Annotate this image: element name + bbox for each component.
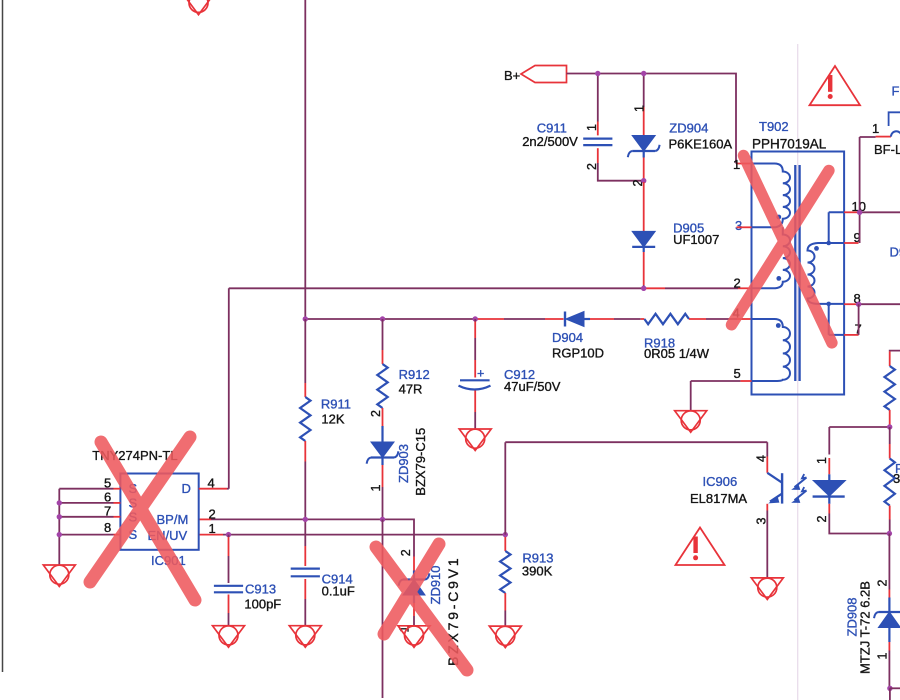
svg-text:BP/M: BP/M — [157, 512, 189, 527]
svg-text:39: 39 — [893, 471, 900, 486]
svg-text:EL817MA: EL817MA — [690, 491, 747, 506]
ground C914 — [289, 626, 321, 648]
wire C911 bottom elbow — [597, 148, 599, 163]
diode D904 — [564, 312, 566, 327]
wire C913 bottom — [228, 595, 230, 614]
wire C911 top — [597, 74, 599, 122]
wire R912 top — [382, 319, 384, 350]
wire right resistor feed — [890, 350, 900, 353]
svg-text:P6KE160A: P6KE160A — [669, 137, 733, 152]
wire top vertical feed — [304, 0, 306, 319]
wire IC906 collector — [766, 442, 768, 456]
ground T902 pin5 — [675, 411, 707, 433]
wire bias rail — [305, 318, 477, 320]
node T902 internal 9/10 — [826, 241, 831, 246]
svg-text:B+: B+ — [504, 68, 520, 83]
resistor R913 — [500, 551, 510, 593]
svg-text:3: 3 — [735, 218, 742, 233]
svg-text:2: 2 — [815, 516, 829, 523]
T902 winding dot C — [776, 323, 781, 328]
svg-text:2n2/500V: 2n2/500V — [522, 134, 578, 149]
node Ra/Rb/LED link — [887, 424, 892, 429]
svg-text:5: 5 — [734, 366, 741, 381]
wire transformer pin1 stub — [736, 163, 752, 165]
svg-text:ZD904: ZD904 — [669, 120, 708, 135]
node EN/UV / C913 — [226, 532, 231, 537]
wire ZD908 bottom — [888, 628, 890, 643]
svg-text:+: + — [477, 367, 484, 381]
svg-text:2: 2 — [399, 549, 413, 556]
svg-text:1: 1 — [633, 105, 647, 112]
svg-text:R912: R912 — [399, 367, 430, 382]
svg-text:D904: D904 — [552, 330, 583, 345]
wire EN/UV rail — [223, 534, 505, 536]
wire ZD903 bottom — [381, 458, 383, 466]
svg-text:1: 1 — [209, 521, 216, 536]
diode IC906 LED — [813, 481, 845, 497]
svg-text:1: 1 — [872, 121, 879, 136]
svg-text:3: 3 — [754, 518, 768, 525]
wire ZD904 top — [643, 74, 645, 108]
svg-text:2: 2 — [876, 580, 890, 587]
node pin10 junction — [857, 210, 862, 215]
wire B+ rail to transformer pin 1 — [567, 74, 737, 164]
resistor Rb (right edge) — [885, 459, 895, 506]
T902 secondary links — [829, 212, 844, 335]
svg-text:2: 2 — [209, 506, 216, 521]
T902 secondary winding — [808, 212, 829, 304]
wire IC901 BP/M stub — [199, 518, 211, 520]
capacitor C911 — [583, 138, 612, 140]
wire R913 bottom — [504, 593, 506, 611]
svg-text:ZD910: ZD910 — [428, 565, 443, 604]
page border left edge — [2, 0, 4, 672]
node B+/C911 junction — [595, 71, 600, 76]
ground C913 — [213, 626, 245, 648]
svg-text:8: 8 — [104, 520, 111, 535]
wire pin10 exit right — [860, 211, 900, 213]
ground IC901 — [43, 565, 75, 587]
wire R912/ZD903 link — [382, 408, 384, 426]
wire D905 top — [643, 182, 645, 231]
node BP/M / R911 — [303, 517, 308, 522]
svg-text:BZX79-C15: BZX79-C15 — [413, 428, 428, 496]
svg-text:T902: T902 — [759, 119, 789, 134]
node pin8 junction — [856, 302, 861, 307]
svg-text:FB: FB — [892, 84, 900, 99]
svg-text:UF1007: UF1007 — [673, 232, 719, 247]
wire ZD904 bottom — [643, 151, 645, 158]
transformer T902 body — [752, 152, 845, 395]
zener ZD904 — [632, 136, 655, 152]
wire ZD903 column lower tail — [382, 519, 384, 698]
ground IC906 emitter — [751, 578, 783, 600]
T902 winding dot B — [776, 276, 781, 281]
wire IC901 pin5 stub — [114, 488, 121, 490]
wire C912 top — [474, 319, 476, 322]
node bias rail / C912 — [473, 316, 478, 321]
wire BF-L stub — [876, 136, 891, 138]
svg-text:47uF/50V: 47uF/50V — [504, 379, 561, 394]
X mark over T902 — [732, 156, 832, 343]
warning triangle near T902 — [810, 66, 861, 105]
resistor R918 — [644, 314, 689, 324]
svg-text:R911: R911 — [321, 397, 351, 412]
node S pins tie 3 — [57, 532, 62, 537]
wire IC901 pin7 stub — [114, 516, 121, 518]
IC906 light arrows — [795, 478, 807, 488]
node C911/ZD904 junction — [641, 178, 646, 183]
connector box (clipped) — [889, 112, 900, 126]
wire C914 bottom — [304, 579, 306, 599]
wire ZD910 bottom — [413, 595, 415, 603]
node EN/UV / R913 / riser — [503, 532, 508, 537]
wire IC901 EN/UV stub — [199, 534, 223, 536]
wire T902 pin7 stub — [844, 334, 859, 336]
wire R913 top — [504, 537, 506, 551]
wire IC901 drain riser — [228, 288, 230, 488]
ground R913 — [489, 626, 521, 648]
node D905/pin2 junction — [641, 286, 646, 291]
svg-text:4: 4 — [754, 455, 768, 462]
wire R911 top — [304, 319, 306, 383]
wire IC901 drain to transformer pin 2 — [229, 287, 644, 289]
T902 winding 1-3 — [752, 164, 790, 228]
resistor Ra (right edge) — [885, 366, 895, 410]
diode D905 — [632, 231, 655, 247]
svg-text:2: 2 — [734, 275, 741, 290]
node T902 internal 7/8 — [826, 302, 831, 307]
warning triangle near IC906 — [676, 528, 725, 566]
svg-text:IC906: IC906 — [703, 474, 738, 489]
wire EN/UV riser to IC906 — [505, 442, 767, 534]
ground C912 — [459, 429, 491, 451]
zener ZD903 — [371, 442, 394, 458]
op-amp IC901 TNY274PN-TL body — [120, 474, 198, 550]
svg-text:1: 1 — [369, 485, 383, 492]
T902 core — [794, 165, 796, 381]
T902 winding 4-5 — [752, 319, 791, 381]
wire IC901 pin6 stub — [114, 502, 121, 504]
svg-text:BF-L: BF-L — [874, 142, 900, 157]
svg-text:390K: 390K — [522, 563, 553, 578]
svg-text:2: 2 — [369, 410, 383, 417]
node Rb/ZD908/LED junction — [887, 531, 892, 536]
node B+/ZD904 junction — [641, 71, 646, 76]
node bias rail / R912 — [380, 316, 385, 321]
wire T902 pin10 stub — [844, 211, 857, 213]
node S pins tie 1 — [57, 500, 62, 505]
zener ZD908 — [878, 612, 900, 628]
X mark over IC901 — [90, 437, 195, 600]
wire D905 bottom — [643, 247, 645, 252]
wire Ra-Rb link — [889, 427, 891, 444]
svg-text:MTZJ T-72 6.2B: MTZJ T-72 6.2B — [858, 581, 873, 674]
svg-text:1: 1 — [875, 653, 889, 660]
wire IC901 pin8 stub — [114, 534, 121, 536]
wire C914 top — [304, 519, 306, 546]
svg-text:RGP10D: RGP10D — [552, 346, 604, 361]
wire IC901 source pins to ground — [59, 488, 113, 490]
wire IC901 drain stub — [199, 488, 227, 490]
page fold line — [797, 44, 799, 700]
svg-text:D: D — [182, 481, 191, 496]
resistor R911 — [300, 397, 310, 441]
wire LED anode from top link — [828, 427, 830, 455]
svg-text:C913: C913 — [245, 582, 276, 597]
node B+ flag — [521, 66, 567, 83]
wire T902 pin5 stub — [740, 380, 751, 382]
capacitor C914 — [291, 567, 320, 569]
node BP/M / ZD903 — [380, 517, 385, 522]
resistor R912 — [377, 364, 387, 408]
ground ZD910 — [398, 626, 430, 648]
wire LED top link — [829, 426, 889, 428]
zener ZD910 — [403, 580, 425, 596]
wire C912 bottom — [474, 391, 476, 413]
svg-text:12K: 12K — [321, 411, 344, 426]
wire T902 pin9 stub — [844, 242, 858, 244]
svg-text:47R: 47R — [399, 381, 423, 396]
transistor IC906 phototransistor — [781, 473, 783, 503]
svg-text:1: 1 — [585, 124, 599, 131]
wire ZD910 top — [413, 540, 415, 557]
T902 winding dot A — [776, 215, 781, 220]
svg-text:PPH7019AL: PPH7019AL — [752, 137, 827, 152]
wire IC906 emitter — [766, 504, 768, 511]
svg-text:D9: D9 — [890, 245, 900, 260]
X mark over ZD910 — [376, 544, 467, 670]
wire T902 pin8 stub — [844, 303, 856, 305]
wire pin8 to pin7 — [858, 304, 860, 335]
wire bottom tail — [889, 688, 891, 700]
wire BP/M rail — [211, 519, 414, 540]
wire C913 top — [228, 535, 230, 537]
ground (clipped at top) — [183, 0, 215, 15]
wire pin8 exit right — [859, 303, 900, 305]
wire transformer pin4 stub — [737, 318, 752, 320]
capacitor C913 — [214, 585, 243, 587]
node S pins tie 2 — [57, 514, 62, 519]
wire T902 pin3 stub — [737, 226, 752, 228]
wire ZD908 top — [888, 534, 890, 590]
svg-text:0R05 1/4W: 0R05 1/4W — [644, 346, 710, 361]
T902 winding dot D — [814, 246, 819, 251]
wire pin10/9 vertical to BF-L — [860, 137, 876, 243]
svg-text:100pF: 100pF — [244, 597, 281, 612]
wire pin5 to ground — [691, 381, 741, 411]
svg-text:ZD903: ZD903 — [396, 444, 411, 483]
svg-text:0.1uF: 0.1uF — [322, 583, 355, 598]
wire bottom right exit — [890, 687, 900, 689]
wire LED cathode — [828, 497, 830, 504]
inductor BF-L (clipped) — [891, 131, 900, 136]
wire R911 bottom — [304, 441, 306, 462]
T902 winding 3-2 — [752, 227, 791, 288]
node ZD908 bottom junction — [887, 686, 892, 691]
node bias rail / R911 — [303, 316, 308, 321]
svg-text:1: 1 — [815, 457, 829, 464]
